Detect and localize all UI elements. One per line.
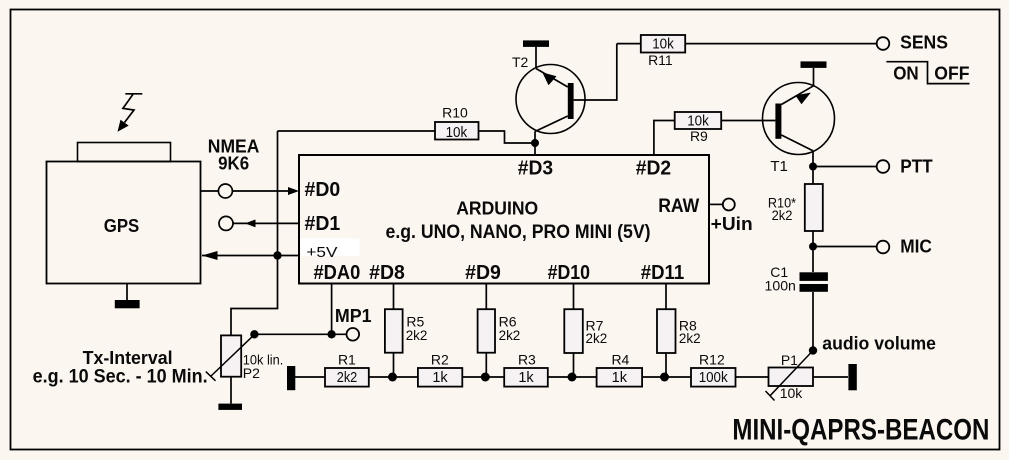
svg-text:2k2: 2k2 — [772, 207, 793, 223]
svg-text:e.g. 10 Sec. - 10 Min.: e.g. 10 Sec. - 10 Min. — [33, 367, 208, 388]
svg-text:100k: 100k — [699, 370, 729, 386]
svg-text:10k: 10k — [780, 385, 804, 401]
svg-text:#D10: #D10 — [548, 262, 590, 284]
svg-text:#D8: #D8 — [369, 262, 405, 284]
svg-text:#D2: #D2 — [636, 157, 671, 179]
svg-text:RAW: RAW — [658, 196, 699, 217]
svg-text:+5V: +5V — [306, 244, 337, 261]
svg-text:R2: R2 — [431, 351, 449, 367]
svg-text:R10: R10 — [442, 104, 468, 120]
svg-text:#D3: #D3 — [518, 157, 553, 179]
svg-text:R4: R4 — [611, 351, 629, 367]
svg-text:1k: 1k — [612, 370, 628, 386]
svg-text:ARDUINO: ARDUINO — [456, 197, 538, 218]
svg-text:#DA0: #DA0 — [314, 262, 361, 284]
svg-text:MP1: MP1 — [335, 306, 372, 326]
svg-text:Tx-Interval: Tx-Interval — [83, 348, 173, 368]
svg-text:2k2: 2k2 — [406, 327, 428, 343]
svg-text:2k2: 2k2 — [586, 330, 608, 346]
svg-text:#D0: #D0 — [305, 179, 341, 201]
svg-text:SENS: SENS — [900, 32, 948, 52]
svg-text:#D9: #D9 — [465, 262, 501, 284]
svg-text:2k2: 2k2 — [499, 327, 521, 343]
svg-text:1k: 1k — [432, 370, 448, 386]
svg-text:MINI-QAPRS-BEACON: MINI-QAPRS-BEACON — [732, 413, 989, 446]
svg-text:audio volume: audio volume — [822, 333, 936, 353]
svg-text:T1: T1 — [770, 158, 788, 175]
svg-text:#D11: #D11 — [641, 262, 684, 284]
svg-text:R9: R9 — [690, 128, 708, 144]
svg-text:+Uin: +Uin — [711, 214, 753, 234]
svg-text:PTT: PTT — [900, 156, 933, 176]
svg-text:100n: 100n — [765, 278, 796, 294]
svg-text:9K6: 9K6 — [218, 153, 249, 173]
svg-text:1k: 1k — [518, 370, 534, 386]
svg-text:e.g. UNO, NANO, PRO MINI (5V): e.g. UNO, NANO, PRO MINI (5V) — [386, 222, 651, 243]
svg-text:MIC: MIC — [900, 237, 932, 257]
svg-text:#D1: #D1 — [305, 213, 341, 235]
svg-text:R3: R3 — [518, 351, 536, 367]
svg-text:R1: R1 — [338, 351, 356, 367]
svg-text:GPS: GPS — [104, 216, 140, 236]
svg-text:R12: R12 — [699, 351, 725, 367]
svg-text:T2: T2 — [512, 54, 529, 70]
svg-text:OFF: OFF — [934, 63, 969, 83]
svg-text:P1: P1 — [781, 352, 798, 368]
svg-text:R11: R11 — [648, 52, 673, 68]
svg-text:10k: 10k — [652, 37, 674, 53]
svg-text:2k2: 2k2 — [337, 370, 358, 386]
svg-text:ON: ON — [893, 63, 919, 83]
svg-text:10k: 10k — [446, 125, 468, 141]
svg-text:2k2: 2k2 — [679, 330, 701, 346]
svg-text:P2: P2 — [243, 365, 260, 381]
